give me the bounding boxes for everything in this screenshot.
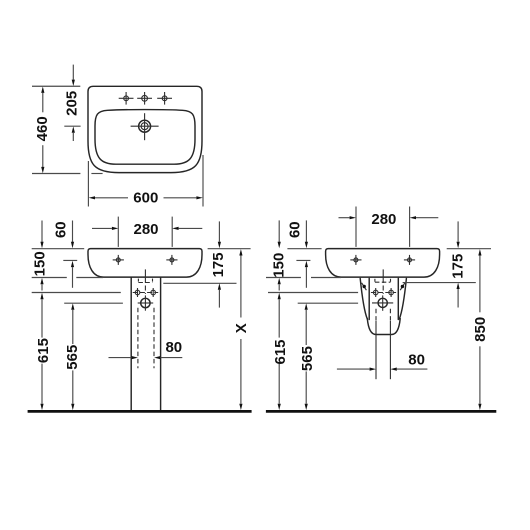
dimension 60 (right view) <box>286 220 308 287</box>
centerline (right view) <box>382 269 384 294</box>
svg-text:175: 175 <box>450 254 467 279</box>
pedestal <box>131 277 160 410</box>
svg-text:60: 60 <box>286 221 303 238</box>
tap hole left (top view) <box>119 92 134 105</box>
dimension 460 (top view) <box>32 86 103 173</box>
svg-text:280: 280 <box>133 221 158 238</box>
svg-text:615: 615 <box>35 338 52 363</box>
svg-text:280: 280 <box>371 211 396 228</box>
dimension 175 (left view) <box>210 221 227 307</box>
svg-text:X: X <box>233 323 250 333</box>
tap hole right (front view) <box>166 255 177 265</box>
dimension 615 (right view) <box>272 293 289 410</box>
dimension 600 (top view) <box>88 155 203 207</box>
svg-text:460: 460 <box>34 116 51 141</box>
dimension 615 (left view) <box>35 293 52 410</box>
dimension 565 (right view) <box>299 303 316 410</box>
tap hole left (right view) <box>350 255 361 265</box>
floor line (right view) <box>266 410 496 413</box>
fixing holes (right view) <box>371 288 396 297</box>
dimension 205 (top view) <box>64 65 81 141</box>
hidden overflow channel dashed (right view) <box>375 279 391 282</box>
svg-text:150: 150 <box>270 253 287 278</box>
svg-text:80: 80 <box>165 339 182 356</box>
centerline (front view) <box>144 269 146 294</box>
svg-text:60: 60 <box>53 221 70 238</box>
tap hole right (right view) <box>404 255 415 265</box>
siphon cover outer outline <box>360 278 406 334</box>
tap hole center (top view) <box>137 92 152 105</box>
svg-text:205: 205 <box>64 91 81 116</box>
tap hole right (top view) <box>157 92 172 105</box>
svg-text:850: 850 <box>472 317 489 342</box>
svg-text:150: 150 <box>32 251 49 276</box>
hidden overflow channel dashed (front view) <box>138 279 152 283</box>
dimension 850 (right view) <box>472 249 489 410</box>
dimension 280 (right view) <box>339 207 439 247</box>
hidden drain pipe dashed lines (front view) <box>138 308 154 368</box>
dimension 565 (left view) <box>64 303 81 410</box>
svg-text:615: 615 <box>272 339 289 364</box>
svg-text:600: 600 <box>133 190 158 207</box>
svg-text:565: 565 <box>64 345 81 370</box>
drain with overflow (top view) <box>131 113 159 140</box>
dimension 80 (right view) <box>337 352 428 371</box>
dimension 150 (right view) <box>270 220 287 290</box>
siphon cover inner outline <box>369 278 398 319</box>
svg-text:175: 175 <box>210 252 227 277</box>
washbasin front view outline (left, with pedestal) <box>88 249 202 277</box>
dimension 150 (left view) <box>32 221 49 291</box>
drain hole (right view) <box>372 295 393 310</box>
dimension 280 (left view) <box>92 217 202 247</box>
dimension X (left view) <box>233 249 250 410</box>
svg-text:565: 565 <box>299 346 316 371</box>
drain hole (front view) <box>138 295 154 310</box>
washbasin top view outer outline <box>88 86 202 172</box>
washbasin top view inner bowl <box>95 110 195 165</box>
washbasin front view outline (right, with siphon cover) <box>326 249 440 277</box>
fixing holes (front view) <box>133 288 159 297</box>
floor line (left view) <box>28 410 252 413</box>
dimension 175 (right view) <box>450 221 467 307</box>
tap hole left (front view) <box>113 255 124 265</box>
dimension 60 (left view) <box>53 221 75 288</box>
extension lines left view <box>32 249 251 304</box>
dimension 80 (left view) <box>109 339 183 359</box>
drain pipe below cover (right view) <box>376 309 390 379</box>
cover fixing bracket right <box>400 283 405 290</box>
cover fixing bracket left <box>362 283 367 290</box>
extension lines right view <box>266 249 491 304</box>
svg-text:80: 80 <box>408 352 425 369</box>
